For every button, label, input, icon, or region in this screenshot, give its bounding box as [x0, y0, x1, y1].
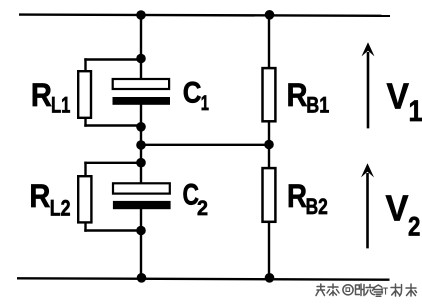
- svg-text:L1: L1: [51, 93, 70, 118]
- svg-text:R: R: [287, 77, 308, 113]
- svg-text:IT: IT: [381, 286, 388, 298]
- svg-text:L2: L2: [50, 196, 71, 221]
- svg-text:2: 2: [408, 212, 420, 242]
- svg-text:R: R: [31, 77, 52, 113]
- svg-text:V: V: [387, 76, 410, 117]
- svg-text:V: V: [386, 188, 410, 229]
- svg-text:1: 1: [201, 91, 209, 115]
- svg-text:B2: B2: [306, 194, 328, 219]
- svg-text:1: 1: [409, 95, 422, 128]
- svg-text:2: 2: [197, 196, 208, 220]
- svg-text:B1: B1: [306, 93, 329, 118]
- svg-text:R: R: [287, 178, 307, 214]
- svg-text:R: R: [29, 178, 50, 214]
- svg-text:C: C: [183, 77, 202, 110]
